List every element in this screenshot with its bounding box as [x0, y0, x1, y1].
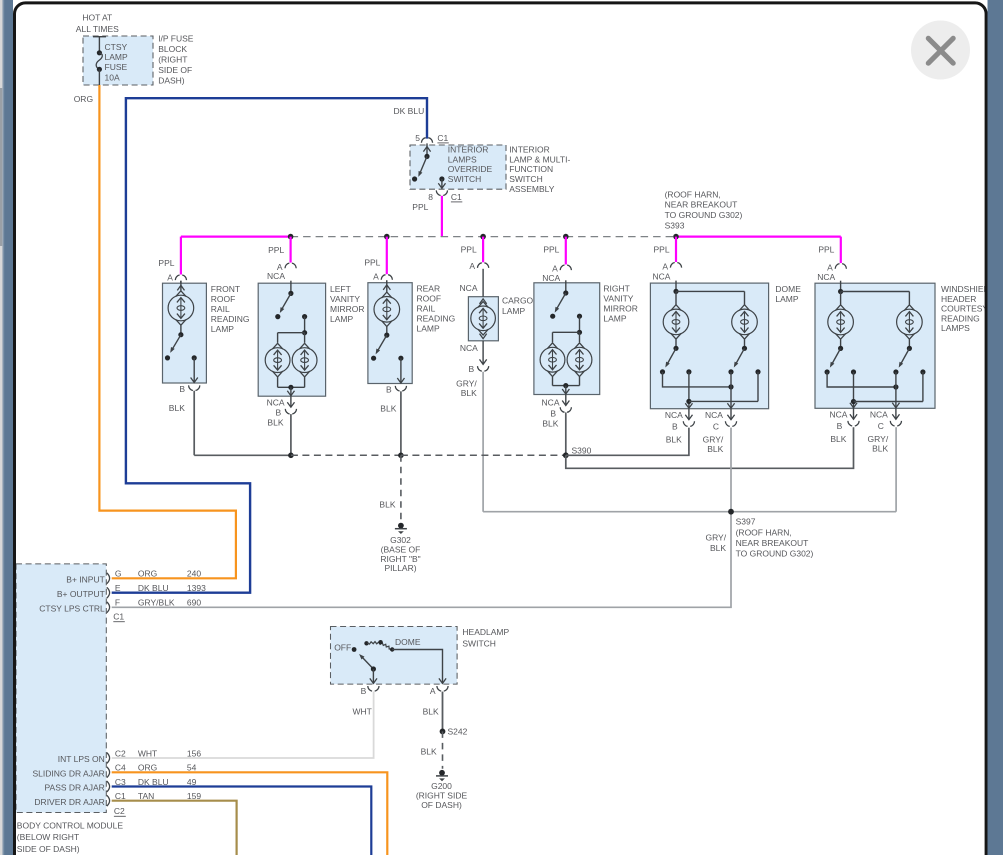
- svg-text:GRY/: GRY/: [705, 532, 726, 542]
- svg-text:A: A: [373, 272, 379, 282]
- wire BLK S390 bus dashed: [291, 454, 401, 456]
- svg-text:CARGO: CARGO: [502, 296, 534, 306]
- svg-text:READING: READING: [417, 313, 456, 323]
- svg-text:SIDE OF DASH): SIDE OF DASH): [17, 844, 80, 854]
- svg-text:C: C: [713, 422, 719, 432]
- lamp front roof rail reading lamp bulb: [180, 281, 182, 291]
- svg-text:I/P FUSE: I/P FUSE: [158, 34, 194, 44]
- svg-text:LAMP: LAMP: [417, 323, 440, 333]
- svg-text:C2: C2: [114, 806, 125, 816]
- svg-text:A: A: [167, 272, 173, 282]
- svg-text:WHT: WHT: [138, 748, 157, 758]
- lamp front roof rail reading lamp box: [163, 283, 207, 383]
- svg-text:ORG: ORG: [138, 763, 157, 773]
- wire BLK left vanity to S390 bus: [290, 414, 292, 455]
- svg-text:SWITCH: SWITCH: [448, 174, 482, 184]
- lamp windshield header courtesy reading lamps feed split: [840, 281, 842, 292]
- lamp windshield header courtesy reading lamps box: [815, 283, 935, 408]
- svg-text:NCA: NCA: [817, 272, 835, 282]
- wire PPL entry rear roof: [386, 281, 388, 283]
- lamp dome lamp pin B net: [688, 372, 690, 408]
- svg-text:B: B: [386, 384, 392, 394]
- svg-text:DK BLU: DK BLU: [138, 777, 169, 787]
- svg-text:B: B: [837, 421, 843, 431]
- svg-text:TO GROUND G302): TO GROUND G302): [665, 210, 743, 220]
- page gutter right blue strip: [988, 0, 1003, 855]
- svg-text:F: F: [115, 598, 120, 608]
- svg-text:VANITY: VANITY: [330, 294, 360, 304]
- lamp right vanity mirror lamp branch: [577, 314, 582, 319]
- node PPL drop rear roof: [384, 234, 390, 240]
- lamp front roof rail reading lamp switch: [180, 325, 182, 334]
- svg-text:REAR: REAR: [417, 283, 441, 293]
- svg-text:NCA: NCA: [267, 271, 285, 281]
- svg-text:690: 690: [187, 598, 201, 608]
- wire BLK rear roof to S390 bus: [400, 391, 402, 455]
- svg-text:BLK: BLK: [872, 444, 888, 454]
- svg-text:1393: 1393: [187, 583, 206, 593]
- lamp left vanity mirror lamp branch: [302, 314, 307, 319]
- lamp windshield header courtesy reading lamps pin C net: [827, 372, 896, 387]
- wire PPL entry cargo: [482, 269, 484, 297]
- svg-text:MIRROR: MIRROR: [603, 303, 637, 313]
- svg-text:S242: S242: [448, 727, 468, 737]
- svg-text:PPL: PPL: [543, 245, 559, 255]
- wire BLK right vanity to S390: [565, 412, 567, 455]
- bus tick at fuse top: [93, 36, 106, 38]
- svg-text:INT LPS ON: INT LPS ON: [58, 754, 105, 764]
- lamp windshield header courtesy reading lamps pin B connector: [853, 408, 855, 419]
- svg-text:A: A: [430, 686, 436, 696]
- svg-text:C: C: [878, 421, 884, 431]
- node PPL drop left vanity: [288, 234, 294, 240]
- svg-text:INTERIOR: INTERIOR: [509, 144, 550, 154]
- lamp right vanity mirror lamp bulb right: [567, 347, 592, 372]
- wire ORG BCM C4 down: [112, 772, 388, 855]
- svg-text:ORG: ORG: [138, 569, 157, 579]
- svg-text:ROOF: ROOF: [211, 294, 236, 304]
- node S242: [440, 729, 446, 735]
- svg-text:FRONT: FRONT: [211, 284, 240, 294]
- svg-text:DK BLU: DK BLU: [138, 583, 169, 593]
- svg-text:NCA: NCA: [460, 283, 478, 293]
- svg-text:C4: C4: [115, 763, 126, 773]
- lamp left vanity mirror lamp switch: [290, 281, 292, 294]
- svg-text:G302: G302: [390, 535, 411, 545]
- lamp windshield header courtesy reading lamps contacts: [825, 369, 830, 374]
- lamp rear roof rail reading lamp pin B wire: [398, 356, 403, 361]
- wire BLK S390 bus solid left: [194, 454, 291, 456]
- svg-text:BLK: BLK: [267, 418, 283, 428]
- body control module box: [16, 564, 106, 813]
- svg-text:SWITCH: SWITCH: [462, 638, 496, 648]
- svg-text:BLK: BLK: [379, 499, 395, 509]
- fuse CTSY LAMP FUSE 10A: [98, 37, 100, 53]
- svg-text:LAMP & MULTI-: LAMP & MULTI-: [509, 154, 570, 164]
- svg-text:HEADLAMP: HEADLAMP: [462, 627, 509, 637]
- svg-text:LAMP: LAMP: [211, 324, 234, 334]
- svg-text:BLK: BLK: [421, 747, 437, 757]
- svg-text:B+ INPUT: B+ INPUT: [66, 575, 105, 585]
- close button: [911, 21, 970, 80]
- lamp windshield header courtesy reading lamps switch at x=909.4: [908, 339, 910, 348]
- svg-text:SLIDING DR AJAR: SLIDING DR AJAR: [33, 769, 105, 779]
- svg-text:(ROOF HARN,: (ROOF HARN,: [665, 189, 721, 199]
- svg-text:49: 49: [187, 777, 197, 787]
- svg-text:S390: S390: [572, 445, 592, 455]
- wire BLK headlamp to S242: [442, 692, 444, 732]
- lamp left vanity mirror lamp bulb right: [292, 348, 317, 373]
- svg-text:DRIVER DR AJAR: DRIVER DR AJAR: [34, 797, 104, 807]
- svg-text:156: 156: [187, 748, 201, 758]
- svg-text:PPL: PPL: [818, 244, 834, 254]
- svg-text:NEAR BREAKOUT: NEAR BREAKOUT: [736, 538, 809, 548]
- svg-text:DK BLU: DK BLU: [394, 106, 425, 116]
- svg-text:ALL TIMES: ALL TIMES: [76, 24, 119, 34]
- svg-text:C3: C3: [115, 777, 126, 787]
- svg-text:RAIL: RAIL: [417, 303, 436, 313]
- svg-text:BLK: BLK: [380, 404, 396, 414]
- lamp rear roof rail reading lamp box: [368, 283, 412, 384]
- svg-text:BODY CONTROL MODULE: BODY CONTROL MODULE: [17, 821, 124, 831]
- wire DK BLU BCM C3 down: [112, 787, 372, 855]
- svg-text:(BASE OF: (BASE OF: [381, 544, 421, 554]
- svg-text:ROOF: ROOF: [417, 293, 442, 303]
- connector C1 pin 8: [436, 190, 440, 195]
- svg-text:10A: 10A: [105, 73, 120, 83]
- svg-text:CTSY: CTSY: [105, 42, 128, 52]
- wire GRY/BLK dome pin C down to BCM pin F: [112, 428, 731, 608]
- node S390: [563, 452, 569, 458]
- svg-text:BLK: BLK: [169, 403, 185, 413]
- svg-text:LAMPS: LAMPS: [941, 323, 970, 333]
- wire PPL bus dashed segment: [291, 236, 676, 238]
- svg-text:LAMP: LAMP: [502, 306, 525, 316]
- lamp dome lamp pin C connector: [730, 409, 732, 420]
- svg-text:OVERRIDE: OVERRIDE: [448, 164, 493, 174]
- node PPL drop dome: [673, 234, 679, 240]
- svg-text:RIGHT: RIGHT: [603, 283, 629, 293]
- lamp right vanity mirror lamp pin B wire: [552, 377, 554, 386]
- svg-text:BLK: BLK: [423, 706, 439, 716]
- svg-text:C1: C1: [451, 192, 462, 202]
- lamp dome lamp switch at x=676: [675, 339, 677, 348]
- wire BLK dashed to ground G302: [400, 455, 402, 521]
- node PPL drop front roof: [180, 237, 182, 275]
- headlamp switch DOME output: [392, 650, 442, 684]
- wire PPL entry front roof: [180, 281, 182, 283]
- wire BLK S390 to windshield pin B: [566, 427, 854, 468]
- svg-text:NCA: NCA: [460, 343, 478, 353]
- node junction left vanity BLK: [288, 453, 294, 459]
- svg-text:VANITY: VANITY: [603, 293, 633, 303]
- svg-text:COURTESY/: COURTESY/: [941, 304, 991, 314]
- svg-text:B+ OUTPUT: B+ OUTPUT: [57, 589, 105, 599]
- svg-text:PPL: PPL: [461, 245, 477, 255]
- svg-text:CTSY LPS CTRL: CTSY LPS CTRL: [39, 604, 105, 614]
- svg-text:NCA: NCA: [542, 397, 560, 407]
- I/P fuse block box: [83, 36, 153, 85]
- svg-text:ASSEMBLY: ASSEMBLY: [509, 184, 555, 194]
- svg-text:B: B: [550, 409, 556, 419]
- lamp dome lamp switch at x=744.5: [744, 339, 746, 348]
- svg-text:C1: C1: [115, 791, 126, 801]
- svg-text:S393: S393: [665, 220, 685, 230]
- wire GRY/BLK cargo to S397: [482, 372, 484, 512]
- BCM pin C4 ORG 54: [107, 767, 110, 778]
- svg-text:BLK: BLK: [830, 434, 846, 444]
- svg-text:C2: C2: [115, 748, 126, 758]
- svg-text:NCA: NCA: [705, 410, 723, 420]
- lamp windshield header courtesy reading lamps switch at x=840.6: [840, 339, 842, 348]
- svg-text:G200: G200: [431, 781, 452, 791]
- BCM pin C3 DK BLU 49: [107, 781, 110, 792]
- lamp rear roof rail reading lamp bulb: [386, 280, 388, 292]
- svg-text:ORG: ORG: [74, 94, 93, 104]
- svg-text:HOT AT: HOT AT: [82, 13, 112, 23]
- svg-text:NCA: NCA: [267, 398, 285, 408]
- svg-text:NCA: NCA: [665, 410, 683, 420]
- svg-text:FUNCTION: FUNCTION: [509, 164, 553, 174]
- connector headlamp pin B: [368, 686, 372, 691]
- page gutter left blue strip: [3, 0, 13, 855]
- svg-text:READING: READING: [211, 314, 250, 324]
- svg-text:DOME: DOME: [395, 637, 421, 647]
- svg-text:GRY/BLK: GRY/BLK: [138, 598, 175, 608]
- node junction rear roof BLK: [398, 453, 404, 459]
- svg-text:TAN: TAN: [138, 791, 154, 801]
- svg-text:B: B: [672, 422, 678, 432]
- svg-text:G: G: [115, 569, 122, 579]
- svg-text:LAMPS: LAMPS: [448, 154, 477, 164]
- ground G302: [398, 523, 404, 529]
- lamp left vanity mirror lamp pin B wire: [277, 377, 279, 387]
- svg-text:PPL: PPL: [364, 258, 380, 268]
- interior lamps override switch box: [410, 145, 506, 189]
- svg-text:HEADER: HEADER: [941, 294, 976, 304]
- wire ORG fuse to BCM pin G: [99, 85, 236, 578]
- wire PPL bus right segment: [676, 236, 841, 238]
- lamp left vanity mirror lamp box: [258, 283, 325, 396]
- svg-text:S397: S397: [736, 517, 756, 527]
- svg-text:BLK: BLK: [666, 434, 682, 444]
- lamp windshield header courtesy reading lamps bulb right: [897, 309, 923, 335]
- wire PPL bus left segment: [181, 236, 291, 238]
- wire BLK dashed S242 to G200: [442, 731, 444, 768]
- node S397: [728, 509, 734, 515]
- svg-text:OF DASH): OF DASH): [421, 800, 462, 810]
- lamp right vanity mirror lamp switch: [565, 280, 567, 293]
- svg-text:(RIGHT: (RIGHT: [158, 55, 187, 65]
- svg-text:PPL: PPL: [412, 202, 428, 212]
- svg-text:PPL: PPL: [158, 258, 174, 268]
- svg-text:A: A: [662, 262, 668, 272]
- wire PPL switch to bus: [441, 196, 443, 237]
- svg-text:READING: READING: [941, 313, 980, 323]
- svg-text:BLOCK: BLOCK: [158, 44, 187, 54]
- headlamp switch box: [331, 627, 458, 685]
- connector C1 pin 5: [421, 138, 425, 143]
- wire BLK S390 to dome pin B: [566, 428, 689, 456]
- svg-text:LAMP: LAMP: [105, 52, 128, 62]
- lamp dome lamp pin B connector: [688, 409, 690, 420]
- svg-text:NEAR BREAKOUT: NEAR BREAKOUT: [665, 200, 738, 210]
- svg-text:E: E: [115, 583, 121, 593]
- headlamp switch detent coil: [364, 641, 368, 645]
- svg-text:GRY/: GRY/: [703, 434, 724, 444]
- svg-text:OFF: OFF: [334, 643, 351, 653]
- connector headlamp pin A: [437, 686, 441, 691]
- BCM pin F GRY/BLK 690: [107, 602, 110, 613]
- svg-text:LEFT: LEFT: [330, 284, 351, 294]
- svg-text:B: B: [276, 408, 282, 418]
- lamp right vanity mirror lamp bulb left: [540, 347, 565, 372]
- svg-text:240: 240: [187, 569, 201, 579]
- browser scrollbar track left: [0, 0, 3, 855]
- svg-text:LAMP: LAMP: [603, 313, 626, 323]
- wire GRY/BLK S397 horizontal: [483, 511, 896, 513]
- svg-text:PPL: PPL: [268, 245, 284, 255]
- wire DK BLU switch pin5 to BCM pin E: [112, 98, 427, 593]
- wire WHT BCM to headlamp switch pin B: [112, 692, 374, 758]
- lamp windshield header courtesy reading lamps bulb left: [828, 309, 854, 335]
- lamp windshield header courtesy reading lamps pin B net: [853, 372, 855, 408]
- svg-text:LAMP: LAMP: [775, 294, 798, 304]
- wire BLK front roof to S390 bus: [193, 391, 195, 456]
- lamp dome lamp box: [650, 283, 768, 409]
- svg-text:DASH): DASH): [158, 76, 185, 86]
- svg-text:TO GROUND G302): TO GROUND G302): [736, 549, 814, 559]
- svg-text:B: B: [469, 364, 475, 374]
- browser scrollbar thumb left: [0, 88, 2, 246]
- svg-text:159: 159: [187, 791, 201, 801]
- svg-text:INTERIOR: INTERIOR: [448, 144, 489, 154]
- svg-text:SIDE OF: SIDE OF: [158, 65, 192, 75]
- wire TAN BCM C1 down: [112, 801, 237, 855]
- svg-text:NCA: NCA: [870, 410, 888, 420]
- svg-text:(BELOW RIGHT: (BELOW RIGHT: [17, 832, 79, 842]
- lamp windshield header courtesy reading lamps pin C connector: [895, 408, 897, 419]
- lamp front roof rail reading lamp pin B wire: [192, 355, 197, 360]
- svg-text:B: B: [361, 686, 367, 696]
- headlamp switch pin B stem: [372, 669, 374, 683]
- svg-text:8: 8: [428, 192, 433, 202]
- ground G200: [439, 770, 445, 776]
- BCM pin C2 WHT 156: [107, 753, 110, 764]
- lamp dome lamp bulb right: [732, 309, 758, 335]
- svg-text:PPL: PPL: [654, 244, 670, 254]
- lamp cargo box: [468, 297, 498, 341]
- svg-text:54: 54: [187, 763, 197, 773]
- svg-text:BLK: BLK: [707, 444, 723, 454]
- svg-text:C1: C1: [113, 612, 124, 622]
- node PPL drop right vanity: [563, 234, 569, 240]
- svg-text:MIRROR: MIRROR: [330, 304, 364, 314]
- svg-text:BLK: BLK: [710, 543, 726, 553]
- svg-text:GRY/: GRY/: [868, 434, 889, 444]
- svg-text:B: B: [179, 384, 185, 394]
- lamp cargo bulb: [480, 299, 487, 304]
- svg-text:BLK: BLK: [542, 419, 558, 429]
- lamp dome lamp feed split: [675, 281, 677, 292]
- svg-text:NCA: NCA: [652, 272, 670, 282]
- lamp rear roof rail reading lamp switch: [386, 327, 388, 335]
- headlamp switch wiper: [361, 656, 374, 669]
- lamp right vanity mirror lamp box: [534, 283, 600, 395]
- svg-text:A: A: [469, 261, 475, 271]
- svg-text:NCA: NCA: [542, 273, 560, 283]
- override switch contacts: [426, 143, 428, 156]
- BCM pin E DK BLU 1393: [107, 587, 110, 598]
- node PPL drop cargo: [480, 234, 486, 240]
- svg-text:WHT: WHT: [353, 706, 372, 716]
- BCM pin C1 TAN 159: [107, 795, 110, 806]
- lamp dome lamp pin C net: [663, 372, 732, 387]
- svg-text:5: 5: [415, 133, 420, 143]
- svg-text:LAMP: LAMP: [330, 314, 353, 324]
- svg-text:C1: C1: [437, 133, 448, 143]
- svg-text:SWITCH: SWITCH: [509, 174, 543, 184]
- svg-text:FUSE: FUSE: [105, 62, 128, 72]
- lamp left vanity mirror lamp bulb left: [265, 348, 290, 373]
- svg-text:(ROOF HARN,: (ROOF HARN,: [736, 527, 792, 537]
- headlamp switch OFF contact: [352, 647, 357, 652]
- svg-text:DOME: DOME: [775, 284, 801, 294]
- lamp dome lamp bulb left: [663, 309, 689, 335]
- svg-text:PILLAR): PILLAR): [384, 563, 416, 573]
- wire GRY/BLK S397 to windshield pin C: [895, 427, 897, 512]
- svg-text:BLK: BLK: [461, 388, 477, 398]
- BCM pin G ORG 240: [107, 573, 110, 584]
- svg-text:PASS DR AJAR: PASS DR AJAR: [44, 783, 104, 793]
- svg-text:RAIL: RAIL: [211, 304, 230, 314]
- lamp dome lamp contacts: [660, 369, 665, 374]
- svg-text:NCA: NCA: [829, 410, 847, 420]
- node PPL drop windshield: [840, 237, 842, 264]
